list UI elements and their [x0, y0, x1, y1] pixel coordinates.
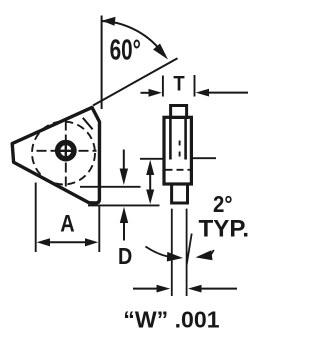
centerline extension right of side view	[192, 157, 216, 159]
W arrow left	[133, 288, 159, 290]
2-degree leader arc left part	[146, 247, 179, 258]
stem	[172, 184, 188, 203]
insert outline (triangle with corner facets)	[12, 107, 99, 202]
svg-text:“W” .001: “W” .001	[123, 306, 219, 332]
W right edge line	[186, 209, 188, 296]
A dimension line	[43, 241, 92, 243]
W left edge line	[171, 209, 173, 296]
corner facet inner line top-right	[83, 118, 93, 130]
side view body	[164, 117, 191, 184]
arrowhead of arc on angled line	[153, 44, 168, 60]
body inner line right	[184, 118, 187, 160]
hole cross bar vertical	[65, 141, 67, 161]
W arrow right	[188, 285, 202, 293]
D upper arrow (down)	[123, 150, 125, 171]
vertical centerline through hole	[65, 121, 67, 190]
horizontal centerline through hole	[37, 150, 97, 152]
extension line from body bottom (L2)	[80, 186, 141, 188]
T left extension line	[162, 76, 164, 97]
svg-text:TYP.: TYP.	[199, 216, 250, 243]
inscribed circle (dashed)	[32, 122, 95, 185]
centerline extension left of side view	[140, 158, 164, 160]
nose height double-arrow dimension	[149, 165, 151, 199]
svg-text:60°: 60°	[110, 34, 141, 66]
vertical extension line above insert peak	[101, 16, 103, 110]
angled 60-degree reference line	[93, 58, 178, 105]
body inner line left	[169, 118, 172, 160]
side view top tab	[171, 106, 187, 118]
T arrow left	[141, 92, 150, 94]
T arrow right	[196, 89, 209, 97]
D lower arrow (up)	[120, 207, 128, 223]
60-degree dimension arc	[102, 21, 164, 55]
svg-text:2°: 2°	[213, 191, 233, 217]
T right extension line	[194, 75, 196, 97]
hole cross bar horizontal	[56, 150, 76, 152]
hole ring	[58, 142, 74, 158]
2-degree leader arrowhead left	[167, 252, 183, 262]
2-degree leader tail right	[211, 250, 214, 255]
extension line from stem bottom (L3)	[88, 204, 160, 206]
A left extension line	[35, 183, 37, 253]
2-degree leader arrowhead right	[196, 250, 213, 260]
body horizontal dashed line	[166, 169, 191, 171]
A arrowhead right	[85, 238, 98, 246]
svg-text:T: T	[173, 72, 184, 95]
svg-text:D: D	[118, 243, 132, 269]
2-degree tapered segment	[187, 234, 192, 265]
svg-text:A: A	[60, 211, 74, 238]
body vertical centerline (dashed)	[179, 141, 181, 163]
A right extension line	[98, 205, 100, 253]
A arrowhead left	[37, 238, 50, 246]
arrowhead of arc on vertical line	[102, 17, 116, 26]
